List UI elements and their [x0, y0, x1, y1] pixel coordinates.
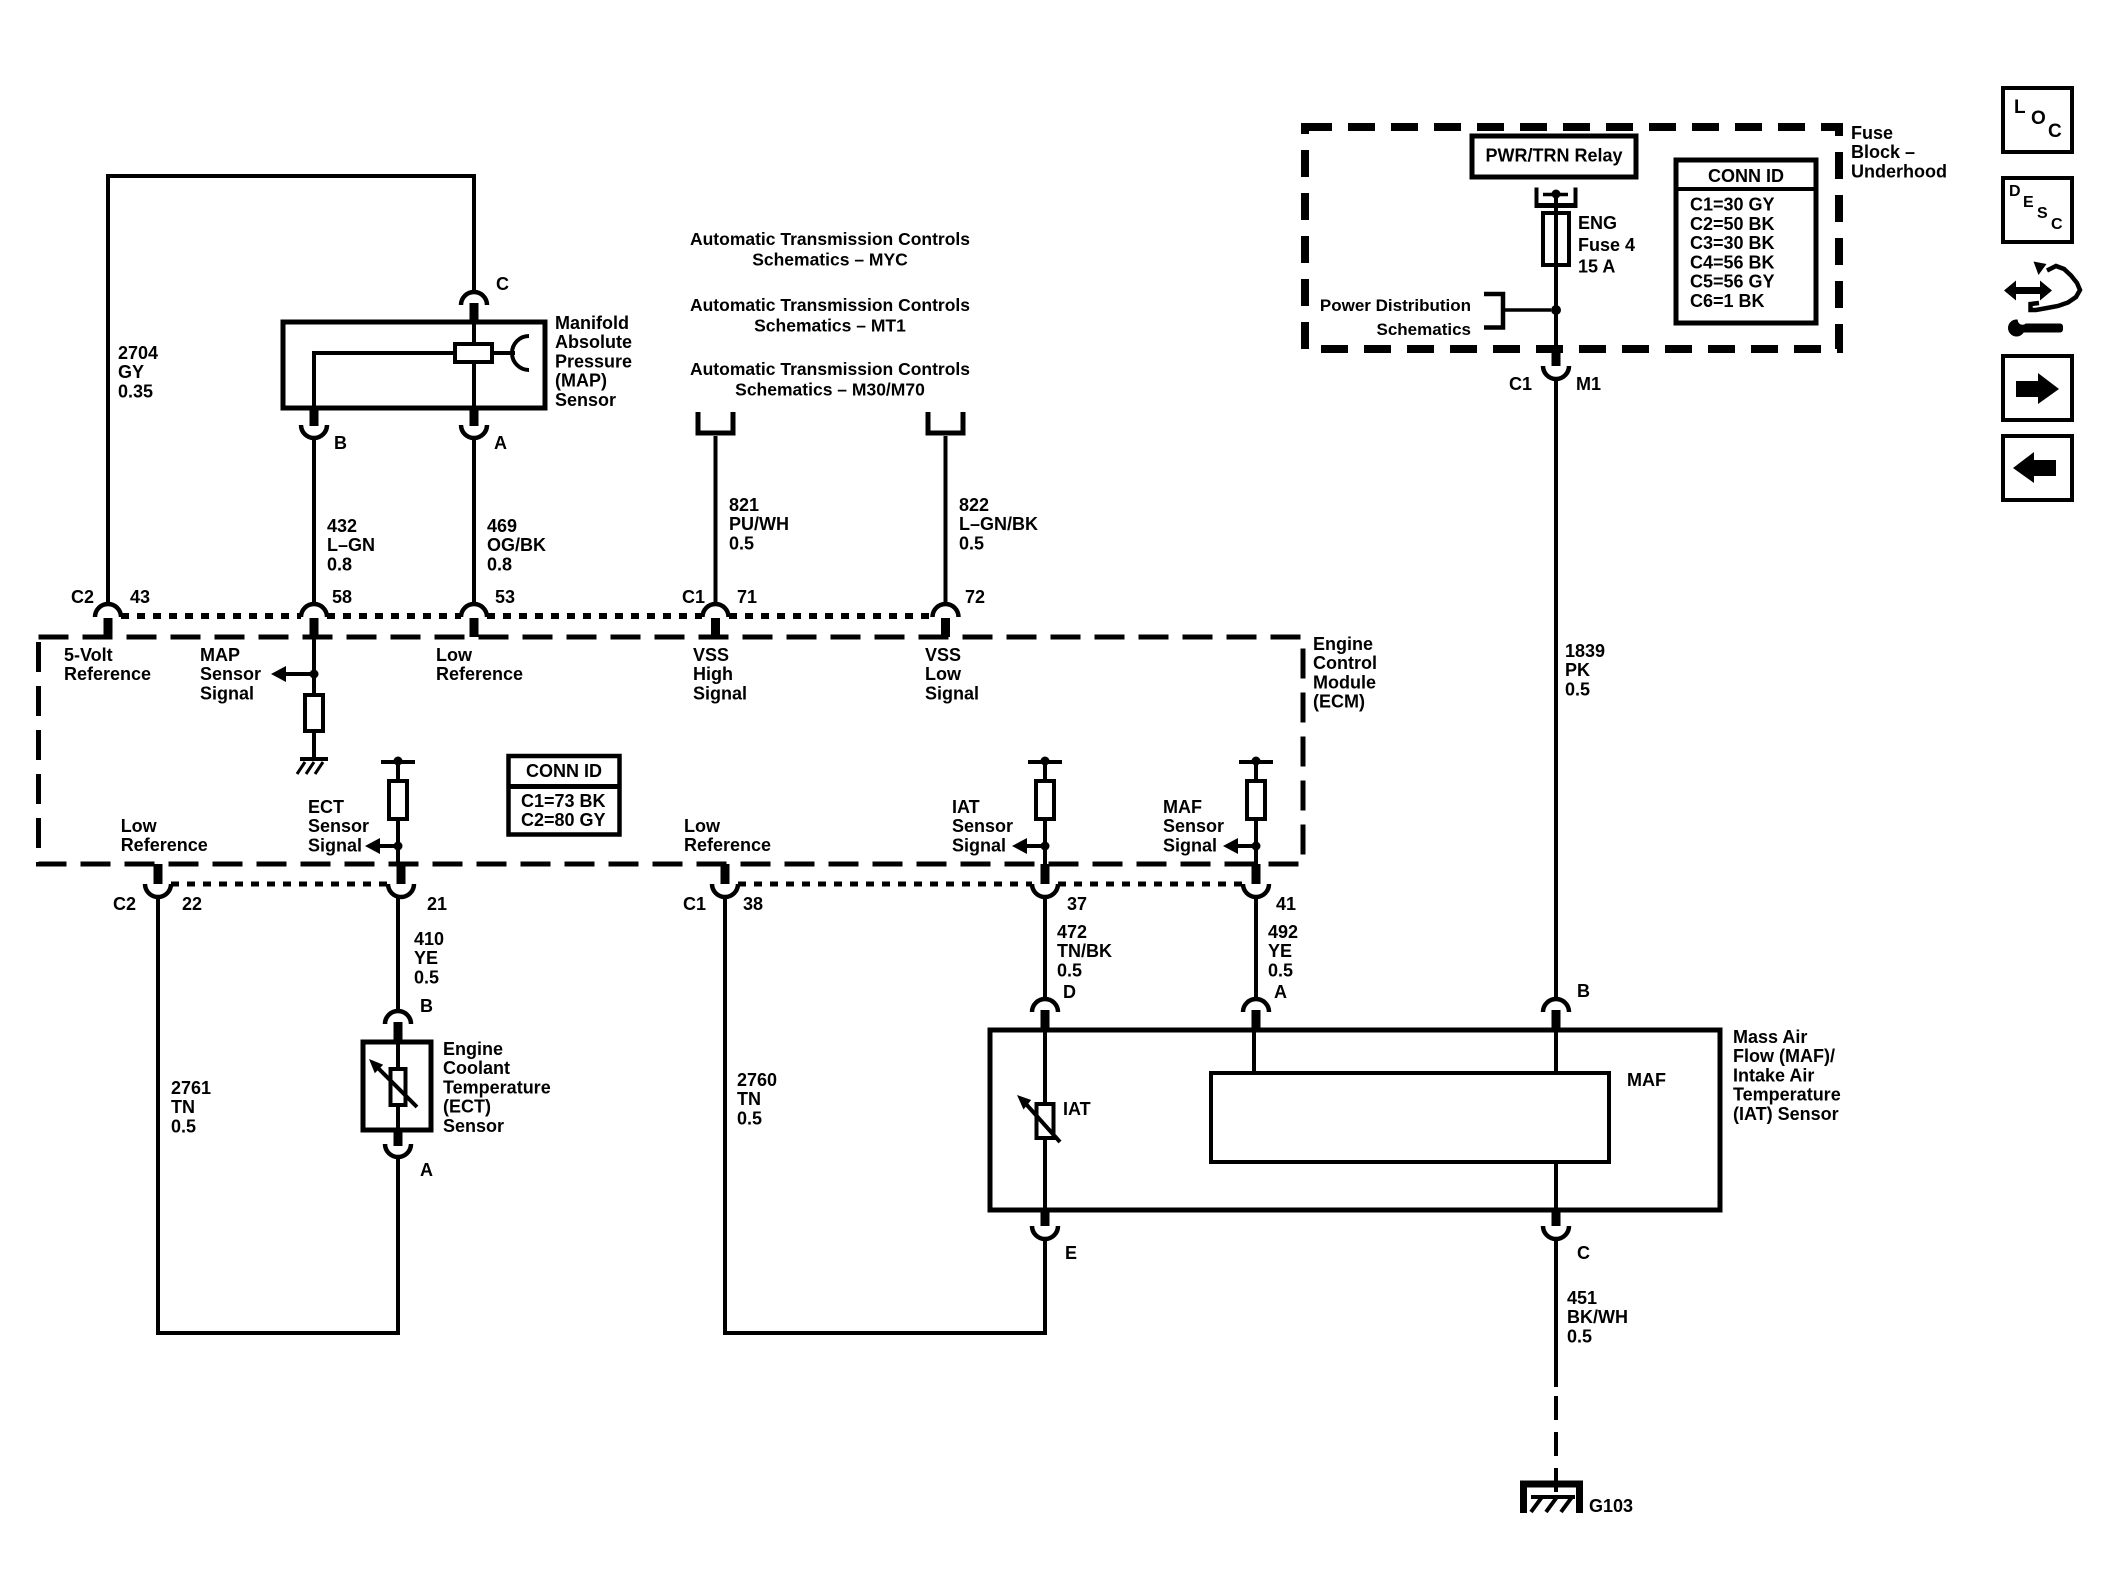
- svg-text:821: 821: [729, 495, 759, 515]
- ECT thermistor arrow: [377, 1067, 417, 1107]
- svg-text:(MAP): (MAP): [555, 371, 607, 391]
- svg-text:Pressure: Pressure: [555, 351, 632, 371]
- LOC icon box: [2003, 88, 2072, 152]
- junction node on MAF signal: [1252, 842, 1261, 851]
- svg-text:Signal: Signal: [308, 835, 362, 855]
- svg-text:YE: YE: [414, 948, 438, 968]
- svg-text:C: C: [2048, 121, 2062, 142]
- svg-text:(IAT) Sensor: (IAT) Sensor: [1733, 1104, 1839, 1124]
- ECM internal IAT pull-up resistor: [1043, 762, 1047, 781]
- svg-text:0.5: 0.5: [1565, 679, 1590, 699]
- svg-text:Sensor: Sensor: [952, 816, 1013, 836]
- wire 472 TN/BK 0.5: [1043, 897, 1047, 999]
- svg-text:Low: Low: [436, 645, 473, 665]
- MAF element wire from pin A: [1252, 1030, 1256, 1073]
- svg-text:Low: Low: [121, 816, 158, 836]
- ECM internal ECT branch termination bar: [381, 760, 415, 764]
- svg-text:CONN ID: CONN ID: [1708, 166, 1784, 186]
- svg-text:C: C: [496, 274, 509, 294]
- svg-text:Manifold: Manifold: [555, 313, 629, 333]
- MAF element wire to pin C: [1554, 1162, 1558, 1210]
- wire 822 L-GN/BK 0.5: [944, 436, 948, 604]
- svg-text:VSS: VSS: [693, 645, 729, 665]
- svg-text:Sensor: Sensor: [555, 390, 616, 410]
- svg-text:Reference: Reference: [436, 664, 523, 684]
- svg-text:Low: Low: [684, 816, 721, 836]
- wire 469 OG/BK 0.8: [472, 438, 476, 604]
- svg-text:S: S: [2037, 205, 2048, 222]
- wire 2760 TN 0.5 low reference: [725, 897, 1045, 1333]
- ECT sensor pin B connector: [385, 1011, 411, 1024]
- CONN ID table for fuse block: [1676, 160, 1816, 323]
- svg-text:(ECM): (ECM): [1313, 692, 1365, 712]
- svg-text:MAF: MAF: [1627, 1070, 1666, 1090]
- svg-text:451: 451: [1567, 1288, 1597, 1308]
- svg-text:Flow (MAF)/: Flow (MAF)/: [1733, 1046, 1835, 1066]
- connector C1 pin 71: [703, 604, 729, 617]
- svg-text:21: 21: [427, 894, 447, 914]
- MAP sensor signal arrow: [271, 666, 286, 682]
- ECM internal IAT branch termination bar: [1028, 760, 1062, 764]
- svg-text:(ECT): (ECT): [443, 1097, 491, 1117]
- svg-text:Schematics – M30/M70: Schematics – M30/M70: [735, 380, 925, 400]
- MAP internal wire to sensing element: [492, 351, 515, 355]
- connector C1 terminal M1: [1552, 349, 1561, 366]
- svg-text:Sensor: Sensor: [443, 1116, 504, 1136]
- svg-text:0.35: 0.35: [118, 381, 153, 401]
- ECM lower connector dotted interface line: [171, 882, 388, 887]
- svg-text:D: D: [1063, 982, 1076, 1002]
- svg-text:71: 71: [737, 587, 757, 607]
- connector C2 pin 21: [397, 864, 406, 884]
- ECT thermistor wire: [396, 1042, 400, 1130]
- svg-text:Signal: Signal: [200, 683, 254, 703]
- ground G103 chassis symbol: [1554, 1478, 1558, 1492]
- svg-text:C: C: [2051, 216, 2063, 233]
- ECM internal ECT signal wire: [396, 819, 400, 864]
- ECT sensor signal arrow: [365, 838, 380, 854]
- connector C1 pin 37: [1041, 864, 1050, 884]
- svg-text:0.5: 0.5: [1268, 960, 1293, 980]
- wire 821 PU/WH 0.5: [714, 436, 718, 604]
- svg-text:472: 472: [1057, 922, 1087, 942]
- svg-text:Schematics – MYC: Schematics – MYC: [752, 250, 908, 270]
- PWR/TRN Relay box: [1472, 136, 1636, 177]
- svg-text:5-Volt: 5-Volt: [64, 645, 113, 665]
- svg-text:53: 53: [495, 587, 515, 607]
- svg-text:0.5: 0.5: [171, 1116, 196, 1136]
- MAP sensor box: [283, 322, 545, 408]
- svg-text:0.8: 0.8: [327, 554, 352, 574]
- svg-text:Signal: Signal: [693, 683, 747, 703]
- svg-text:Reference: Reference: [684, 835, 771, 855]
- MAP internal supply wire through resistor: [472, 322, 476, 408]
- svg-text:M1: M1: [1576, 374, 1601, 394]
- ECT thermistor resistor: [391, 1069, 406, 1105]
- svg-text:ENG: ENG: [1578, 213, 1617, 233]
- svg-text:Power Distribution: Power Distribution: [1320, 296, 1471, 315]
- wire 451 dashed segment to ground: [1554, 1396, 1558, 1478]
- svg-text:C1=73 BK: C1=73 BK: [521, 791, 606, 811]
- wire 1839 PK 0.5 from fuse block: [1554, 379, 1558, 999]
- svg-text:Schematics – MT1: Schematics – MT1: [754, 316, 906, 336]
- svg-text:822: 822: [959, 495, 989, 515]
- svg-text:22: 22: [182, 894, 202, 914]
- wire from relay through fuse: [1554, 198, 1558, 310]
- Engine Coolant Temperature sensor box: [363, 1042, 431, 1130]
- svg-text:PWR/TRN Relay: PWR/TRN Relay: [1485, 146, 1622, 166]
- svg-text:Temperature: Temperature: [443, 1077, 551, 1097]
- svg-text:Engine: Engine: [1313, 634, 1373, 654]
- svg-text:C1: C1: [1509, 374, 1532, 394]
- connector C1 pin 41: [1252, 864, 1261, 884]
- svg-text:OG/BK: OG/BK: [487, 535, 546, 555]
- svg-text:BK/WH: BK/WH: [1567, 1307, 1628, 1327]
- svg-text:YE: YE: [1268, 941, 1292, 961]
- svg-text:Signal: Signal: [952, 835, 1006, 855]
- MAP internal resistor element: [455, 344, 492, 362]
- svg-text:Sensor: Sensor: [308, 816, 369, 836]
- svg-text:D: D: [2009, 183, 2021, 200]
- svg-text:410: 410: [414, 929, 444, 949]
- svg-text:Underhood: Underhood: [1851, 161, 1947, 181]
- svg-text:38: 38: [743, 894, 763, 914]
- forward arrow icon box: [2003, 356, 2072, 420]
- ECM internal ECT pull-up resistor: [396, 762, 400, 781]
- svg-text:C: C: [1577, 1243, 1590, 1263]
- connector C1 pin 72: [933, 604, 959, 617]
- svg-text:IAT: IAT: [952, 797, 980, 817]
- svg-text:2761: 2761: [171, 1078, 211, 1098]
- svg-text:Schematics: Schematics: [1377, 320, 1472, 339]
- svg-text:15 A: 15 A: [1578, 257, 1615, 277]
- wire 492 YE 0.5: [1254, 897, 1258, 999]
- ground G103 bracket: [1524, 1484, 1580, 1513]
- ECM C2/C1 upper connector dotted interface line: [121, 613, 301, 619]
- svg-text:Automatic Transmission Control: Automatic Transmission Controls: [690, 359, 970, 379]
- svg-text:PK: PK: [1565, 660, 1590, 680]
- svg-text:C5=56 GY: C5=56 GY: [1690, 272, 1775, 292]
- svg-text:Control: Control: [1313, 653, 1377, 673]
- svg-text:TN/BK: TN/BK: [1057, 941, 1112, 961]
- CONN ID table for ECM connectors: [509, 756, 620, 835]
- junction node on ECT signal: [394, 842, 403, 851]
- svg-text:469: 469: [487, 516, 517, 536]
- svg-text:Temperature: Temperature: [1733, 1085, 1841, 1105]
- svg-text:432: 432: [327, 516, 357, 536]
- wire 2704 from ECM pin 43 to MAP sensor pin C: [108, 176, 474, 606]
- svg-text:PU/WH: PU/WH: [729, 514, 789, 534]
- Engine Control Module ECM dashed box: [39, 637, 1304, 864]
- svg-text:O: O: [2031, 108, 2046, 129]
- svg-text:C2=50 BK: C2=50 BK: [1690, 214, 1775, 234]
- MAF sensor signal arrow: [1223, 838, 1238, 854]
- navigation icon with arrows and wrench: [2004, 281, 2052, 301]
- wire 410 YE 0.5: [396, 897, 400, 1011]
- MAP sensor pin B connector: [310, 406, 319, 426]
- svg-text:E: E: [1065, 1243, 1077, 1263]
- Fuse Block Underhood dashed box: [1305, 127, 1839, 349]
- svg-text:Fuse 4: Fuse 4: [1578, 235, 1635, 255]
- power distribution bracket: [1484, 294, 1503, 328]
- svg-text:58: 58: [332, 587, 352, 607]
- svg-text:0.5: 0.5: [959, 533, 984, 553]
- MAF/IAT sensor pin E connector: [1041, 1210, 1050, 1226]
- IAT sensor signal arrow: [1012, 838, 1027, 854]
- svg-text:72: 72: [965, 587, 985, 607]
- svg-text:High: High: [693, 664, 733, 684]
- svg-text:Reference: Reference: [64, 664, 151, 684]
- MAF element wire from pin B: [1554, 1030, 1558, 1073]
- svg-text:C1=30 GY: C1=30 GY: [1690, 195, 1775, 215]
- connector C2 pin 22: [154, 864, 163, 884]
- svg-text:Fuse: Fuse: [1851, 123, 1893, 143]
- svg-text:E: E: [2023, 194, 2034, 211]
- MAP sensing element curve: [512, 336, 529, 370]
- svg-text:L–GN: L–GN: [327, 535, 375, 555]
- svg-text:VSS: VSS: [925, 645, 961, 665]
- svg-text:TN: TN: [737, 1089, 761, 1109]
- junction node to power distribution: [1551, 305, 1561, 315]
- ECM internal IAT signal wire: [1043, 819, 1047, 864]
- connector C2 pin 53: [461, 604, 487, 617]
- svg-text:Signal: Signal: [1163, 835, 1217, 855]
- svg-text:L: L: [2014, 97, 2026, 118]
- junction node on IAT signal: [1041, 842, 1050, 851]
- svg-text:A: A: [420, 1160, 433, 1180]
- off-page connector bracket for VSS low signal: [928, 412, 963, 433]
- svg-text:C1: C1: [683, 894, 706, 914]
- svg-text:0.5: 0.5: [1567, 1326, 1592, 1346]
- junction node on MAP signal: [310, 670, 319, 679]
- off-page connector bracket for VSS high signal: [698, 412, 733, 433]
- svg-text:Signal: Signal: [925, 683, 979, 703]
- ECM internal MAF branch termination bar: [1239, 760, 1273, 764]
- svg-text:C2: C2: [71, 587, 94, 607]
- svg-text:Sensor: Sensor: [200, 664, 261, 684]
- MAF element box: [1211, 1073, 1609, 1162]
- svg-text:C3=30 BK: C3=30 BK: [1690, 233, 1775, 253]
- svg-text:Intake Air: Intake Air: [1733, 1065, 1814, 1085]
- svg-text:41: 41: [1276, 894, 1296, 914]
- MAP sensor pin C connector: [461, 292, 487, 305]
- svg-text:A: A: [1274, 982, 1287, 1002]
- MAP sensor pin A connector: [470, 406, 479, 426]
- ECM internal MAF pull resistor: [1254, 762, 1258, 781]
- svg-text:43: 43: [130, 587, 150, 607]
- svg-text:1839: 1839: [1565, 641, 1605, 661]
- svg-text:ECT: ECT: [308, 797, 344, 817]
- ECM internal wire to ground: [312, 731, 316, 757]
- svg-text:0.5: 0.5: [737, 1108, 762, 1128]
- wire 432 L-GN 0.8: [312, 438, 316, 604]
- wire 2761 TN 0.5 low reference: [158, 897, 398, 1333]
- svg-text:0.5: 0.5: [729, 533, 754, 553]
- MAP internal signal tap wire: [314, 353, 455, 408]
- svg-text:B: B: [420, 996, 433, 1016]
- svg-text:L–GN/BK: L–GN/BK: [959, 514, 1038, 534]
- svg-text:2704: 2704: [118, 343, 158, 363]
- MAF/IAT sensor pin C connector: [1552, 1210, 1561, 1226]
- IAT thermistor resistor: [1037, 1104, 1054, 1138]
- MAF/IAT sensor pin B connector: [1543, 999, 1569, 1012]
- svg-text:Automatic Transmission Control: Automatic Transmission Controls: [690, 295, 970, 315]
- svg-text:Coolant: Coolant: [443, 1058, 510, 1078]
- MAF/IAT sensor pin A connector: [1243, 999, 1269, 1012]
- svg-text:Module: Module: [1313, 672, 1376, 692]
- svg-text:Sensor: Sensor: [1163, 816, 1224, 836]
- svg-text:C1: C1: [682, 587, 705, 607]
- svg-text:G103: G103: [1589, 1496, 1633, 1516]
- wire from junction to connector C1 M1: [1554, 310, 1558, 350]
- IAT thermistor arrow: [1026, 1104, 1060, 1142]
- svg-text:GY: GY: [118, 362, 144, 382]
- IAT thermistor wire: [1043, 1030, 1047, 1210]
- svg-text:0.5: 0.5: [1057, 960, 1082, 980]
- svg-text:Reference: Reference: [121, 835, 208, 855]
- connector C1 pin 38: [721, 864, 730, 884]
- svg-text:Low: Low: [925, 664, 962, 684]
- ENG Fuse 4 15A fuse: [1543, 213, 1569, 265]
- ECM internal MAP pull resistor: [312, 637, 316, 695]
- ECM internal MAF signal wire: [1254, 819, 1258, 864]
- svg-text:492: 492: [1268, 922, 1298, 942]
- svg-text:0.8: 0.8: [487, 554, 512, 574]
- svg-text:C4=56 BK: C4=56 BK: [1690, 252, 1775, 272]
- back arrow icon box: [2003, 436, 2072, 500]
- svg-text:MAP: MAP: [200, 645, 240, 665]
- svg-text:Automatic Transmission Control: Automatic Transmission Controls: [690, 229, 970, 249]
- svg-text:0.5: 0.5: [414, 967, 439, 987]
- MAF/IAT sensor pin D connector: [1032, 999, 1058, 1012]
- svg-text:Absolute: Absolute: [555, 332, 632, 352]
- svg-text:Engine: Engine: [443, 1039, 503, 1059]
- svg-text:C6=1 BK: C6=1 BK: [1690, 291, 1765, 311]
- DESC icon box: [2003, 178, 2072, 242]
- svg-text:37: 37: [1067, 894, 1087, 914]
- connector C2 pin 58: [301, 604, 327, 617]
- svg-text:C2: C2: [113, 894, 136, 914]
- svg-text:CONN ID: CONN ID: [526, 761, 602, 781]
- svg-text:2760: 2760: [737, 1070, 777, 1090]
- ECM internal ground symbol: [300, 757, 328, 761]
- svg-text:A: A: [494, 433, 507, 453]
- wire 451 BK/WH 0.5: [1554, 1239, 1558, 1387]
- svg-text:IAT: IAT: [1063, 1099, 1091, 1119]
- svg-text:Block –: Block –: [1851, 142, 1915, 162]
- connector C2 pin 43: [95, 604, 121, 617]
- ECT sensor pin A connector: [394, 1130, 403, 1146]
- Mass Air Flow / Intake Air Temperature sensor box: [990, 1030, 1720, 1210]
- svg-text:B: B: [1577, 981, 1590, 1001]
- svg-text:C2=80 GY: C2=80 GY: [521, 810, 606, 830]
- relay output terminal: [1535, 188, 1539, 204]
- svg-text:TN: TN: [171, 1097, 195, 1117]
- svg-text:MAF: MAF: [1163, 797, 1202, 817]
- svg-text:Mass Air: Mass Air: [1733, 1027, 1807, 1047]
- svg-text:B: B: [334, 433, 347, 453]
